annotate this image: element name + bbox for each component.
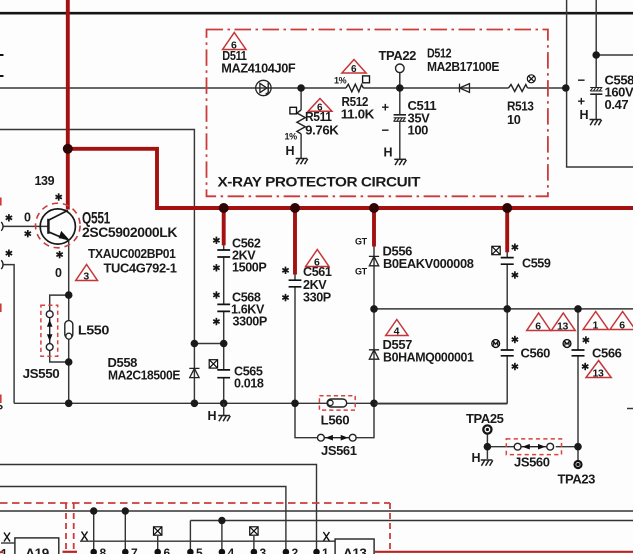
X mark line start [82,532,88,541]
wire pin4 drop [221,521,223,551]
pin numbers [1,546,329,554]
wire right block C558 branch [596,0,633,119]
wire pin6 stub [157,536,159,550]
star base above [6,214,12,221]
wire red drop to D556 [372,208,376,247]
svg-text:1: 1 [322,546,329,554]
svg-text:6: 6 [164,546,171,554]
test point TPA25 [483,425,491,433]
jumper JS560 [514,443,553,450]
terminal 2 [1,260,3,269]
svg-text:L560: L560 [321,413,350,428]
transistor Q551 [40,209,75,244]
wire red L-path to bus [68,149,633,208]
svg-text:A13: A13 [343,546,367,554]
node emitter [65,291,73,299]
node C561 bottom [291,400,299,408]
node TPA22-C511 [396,84,404,92]
svg-text:−: − [382,123,390,138]
star base below [25,230,31,237]
svg-text:4: 4 [394,326,400,338]
svg-text:MA2B17100E: MA2B17100E [427,59,500,74]
svg-text:1%: 1% [334,76,347,86]
node bottomline-emitter [65,400,73,408]
svg-text:6: 6 [317,102,323,113]
svg-text:11.0K: 11.0K [341,107,375,122]
svg-text:−: − [578,73,586,88]
svg-text:L550: L550 [78,323,109,338]
node JS560-C566 [574,443,582,451]
svg-text:8: 8 [100,546,107,554]
wire bus line A y511 [0,510,633,512]
svg-text:H: H [384,146,393,160]
svg-text:GT: GT [355,237,368,247]
inductor L550 [65,321,73,340]
wire R511 branch [300,88,302,158]
wire JS561 loop [295,403,374,437]
left edge red dash b [0,304,2,313]
svg-text:2SC5902000LK: 2SC5902000LK [82,225,178,240]
svg-text:JS561: JS561 [321,443,357,458]
node R513 out [562,84,570,92]
svg-text:330P: 330P [303,291,331,305]
svg-text:0: 0 [55,266,62,280]
node C566 top [574,305,582,313]
node C559-C560 [503,305,511,313]
jumper JS550 [46,311,53,351]
pin dots row [90,549,319,554]
terminal base [1,222,3,231]
wire L550 branch [68,295,70,403]
warning triangle 3 [76,265,98,283]
X mark A13 [323,532,329,541]
wire TPA25 to JS560 [487,446,578,448]
node C565 bottom [220,400,228,408]
diode D512 [460,84,470,93]
box A13 [335,539,374,554]
wire node y309 to right edge [374,308,633,310]
wire C562 C568 column [223,245,225,344]
warning triangle 4 (D557) [386,320,408,338]
svg-text:6: 6 [231,40,237,52]
red bus junction dots [63,144,512,213]
node C568-C565 [220,340,228,348]
wire red drop to C562 [222,208,226,245]
node TPA25 [484,443,492,451]
wire C560 bottom corner [375,403,507,405]
left edge tick 1 [0,54,4,56]
svg-text:C566: C566 [592,346,622,361]
wire TPA22 stub [399,73,401,88]
node line A pin8 [90,507,97,514]
node bus-Q551 [63,144,73,154]
wire C566 column [577,309,579,447]
svg-text:X-RAY PROTECTOR CIRCUIT: X-RAY PROTECTOR CIRCUIT [218,174,421,190]
marker xbox C565 [209,360,217,368]
resistor R512 [346,84,363,92]
red tick far left [0,551,3,553]
wire connector top edge y541.2 [80,540,335,542]
svg-text:B0EAKV000008: B0EAKV000008 [383,256,474,271]
left edge red dash a [0,198,2,206]
capacitor C511 electrolytic [382,98,437,138]
svg-text:+: + [578,94,586,109]
red dashed verticals x66 x74 [66,503,74,550]
capacitor C560 [501,350,514,356]
wire red drop to C559 [505,208,509,252]
wire C511 branch [399,73,401,160]
svg-text:0: 0 [24,211,31,225]
diode D557 zener [369,350,379,359]
svg-text:13: 13 [593,368,604,380]
node bus-C562 [219,203,229,213]
svg-text:1: 1 [593,320,599,332]
resistor R511 [297,110,305,134]
node line B pin4 [218,517,225,524]
wire JS550 branch [50,295,69,362]
warning triangle 6 (D511) [223,33,246,52]
wire C559 column [506,252,508,309]
ground C511 [384,146,407,166]
capacitor C558 electrolytic [590,87,602,91]
capacitor C561 [289,280,302,287]
diode D556 zener [369,256,379,265]
marker circled-x R513 [527,75,535,83]
diode D511 (zener in circle) [256,80,271,95]
svg-text:C560: C560 [521,346,551,361]
marker xbox pin3 [250,527,258,535]
red power bus [68,0,633,275]
svg-text:H: H [208,409,217,423]
marker xbox pin6 [154,527,162,535]
svg-text:4: 4 [228,546,235,554]
capacitor C559 [501,258,514,265]
warning triangle row: 6b [610,312,633,332]
wire TPA23 stub [577,447,579,460]
svg-text:TPA23: TPA23 [558,472,596,487]
svg-text:6: 6 [619,320,625,332]
svg-text:C559: C559 [522,256,551,270]
svg-text:0.47: 0.47 [605,97,629,112]
svg-text:0.018: 0.018 [234,376,264,390]
capacitor C562 [217,250,230,257]
warning triangle 6 (R511) [308,99,332,114]
node bus-C559 [502,203,512,213]
X mark left edge with stub [1,542,15,544]
ground TPA25 [472,451,493,466]
svg-text:GT: GT [355,267,368,277]
wire horizontal bus y88 [0,87,566,89]
warning triangle 6 (C561) [306,250,329,269]
star emitter [56,251,62,258]
node L550 bottom [65,358,73,366]
marker square R511 [290,107,297,114]
svg-text:TXAUC002BP01: TXAUC002BP01 [88,246,176,261]
ground C558 [580,108,602,125]
node line A pin7 [122,507,129,514]
svg-text:5: 5 [196,546,203,554]
svg-text:6: 6 [314,257,320,269]
wire D558 connector [194,343,223,345]
capacitor C565 [217,370,230,378]
left edge tick 2 [0,75,4,77]
red solid bottom line right [375,551,633,553]
wire C560 column [506,309,508,404]
wire bus line B y520.5 [190,520,633,522]
svg-text:TPA25: TPA25 [466,411,504,426]
svg-text:MA2C18500E: MA2C18500E [108,368,181,383]
svg-text:H: H [580,108,589,122]
svg-text:1%: 1% [285,132,298,142]
node D558 top [191,340,199,348]
left edge terminal mark [0,406,2,409]
warning triangle row: 1 [583,312,608,332]
ground R511 [286,144,308,164]
warning triangle row: 13 [551,313,575,333]
svg-text:A19: A19 [25,546,49,554]
wire D556 D557 column [373,246,375,403]
svg-text:3: 3 [260,546,267,554]
black junction dots [65,51,600,450]
warning triangle row: 6 [527,313,551,333]
diode D558 [189,368,199,377]
node D557 bottom [370,400,378,408]
wire corner line y464.5 to pin1 [0,465,317,551]
star collector [56,193,62,200]
wire pin3 stub [253,536,255,550]
svg-text:6: 6 [535,321,541,333]
wire left terminal 2 down to bottom line [3,265,14,404]
svg-text:TPA22: TPA22 [379,48,417,63]
wire pin8 drop [93,511,95,550]
wire corner line y486.5 to pin2 [0,487,286,551]
warning triangle 6 (R512) [342,60,366,76]
test point TPA23 [573,460,582,469]
svg-text:H: H [286,144,295,158]
wire emitter down [68,241,70,295]
svg-text:JS560: JS560 [514,455,550,470]
wire pin7 drop [124,511,126,550]
capacitor C566 [572,350,585,356]
node bus-C561 [290,203,300,213]
svg-text:+: + [382,100,390,115]
node D558 bottom [191,400,199,408]
svg-text:MAZ4104J0F: MAZ4104J0F [221,61,295,76]
svg-text:10: 10 [507,112,521,127]
wire right edge stub [627,408,633,410]
box A19 [15,538,59,554]
svg-text:TUC4G792-1: TUC4G792-1 [104,261,177,276]
svg-text:139: 139 [35,174,55,188]
marker square R512 [363,76,370,83]
wire left terminal to base of Q551 [3,225,48,227]
red solid bottom segment left [63,551,78,553]
svg-text:7: 7 [131,546,138,554]
left edge red dash c [0,395,2,404]
star terminal2 [6,250,12,257]
svg-text:100: 100 [408,123,429,138]
node D511-R511 [297,84,305,92]
inductor L560 [327,399,347,407]
wire right block outline [567,0,633,167]
warning triangle 13 (C566) [586,361,611,380]
red dashed line bottom [0,502,390,504]
wire pin5 drop [189,521,191,551]
node C558 top [592,51,600,59]
svg-text:2: 2 [292,546,299,554]
X-RAY protector dashed box [207,30,548,197]
svg-text:H: H [472,451,481,465]
red dashed vertical x390 [389,503,391,550]
wire top heavy black line [0,12,633,15]
svg-text:3: 3 [83,271,89,283]
ground below C565 [208,403,231,423]
wire TPA25 node [486,434,488,459]
wire red vertical x67.8 [66,0,70,210]
wire red drop to C561 [293,208,297,275]
node D556-D557 [370,305,378,313]
svg-text:1500P: 1500P [232,261,266,275]
capacitor C568 [217,304,230,311]
svg-text:13: 13 [557,321,568,333]
wire C565 column [223,344,225,404]
svg-text:B0HAMQ000001: B0HAMQ000001 [383,350,474,365]
test point TPA22 [396,64,405,73]
wire bottom main line [14,402,507,404]
resistor R513 [509,85,528,92]
red dashed circle Q551 [36,203,81,248]
svg-text:9.76K: 9.76K [305,122,339,137]
svg-text:3300P: 3300P [233,314,267,328]
svg-text:6: 6 [351,64,357,75]
node bus-D556 [369,203,379,213]
wire C561 column [294,275,296,404]
wire horizontal y129.5 to vertical x194.4 [0,130,194,404]
jumper JS561 [318,434,357,441]
svg-text:JS550: JS550 [23,366,60,381]
